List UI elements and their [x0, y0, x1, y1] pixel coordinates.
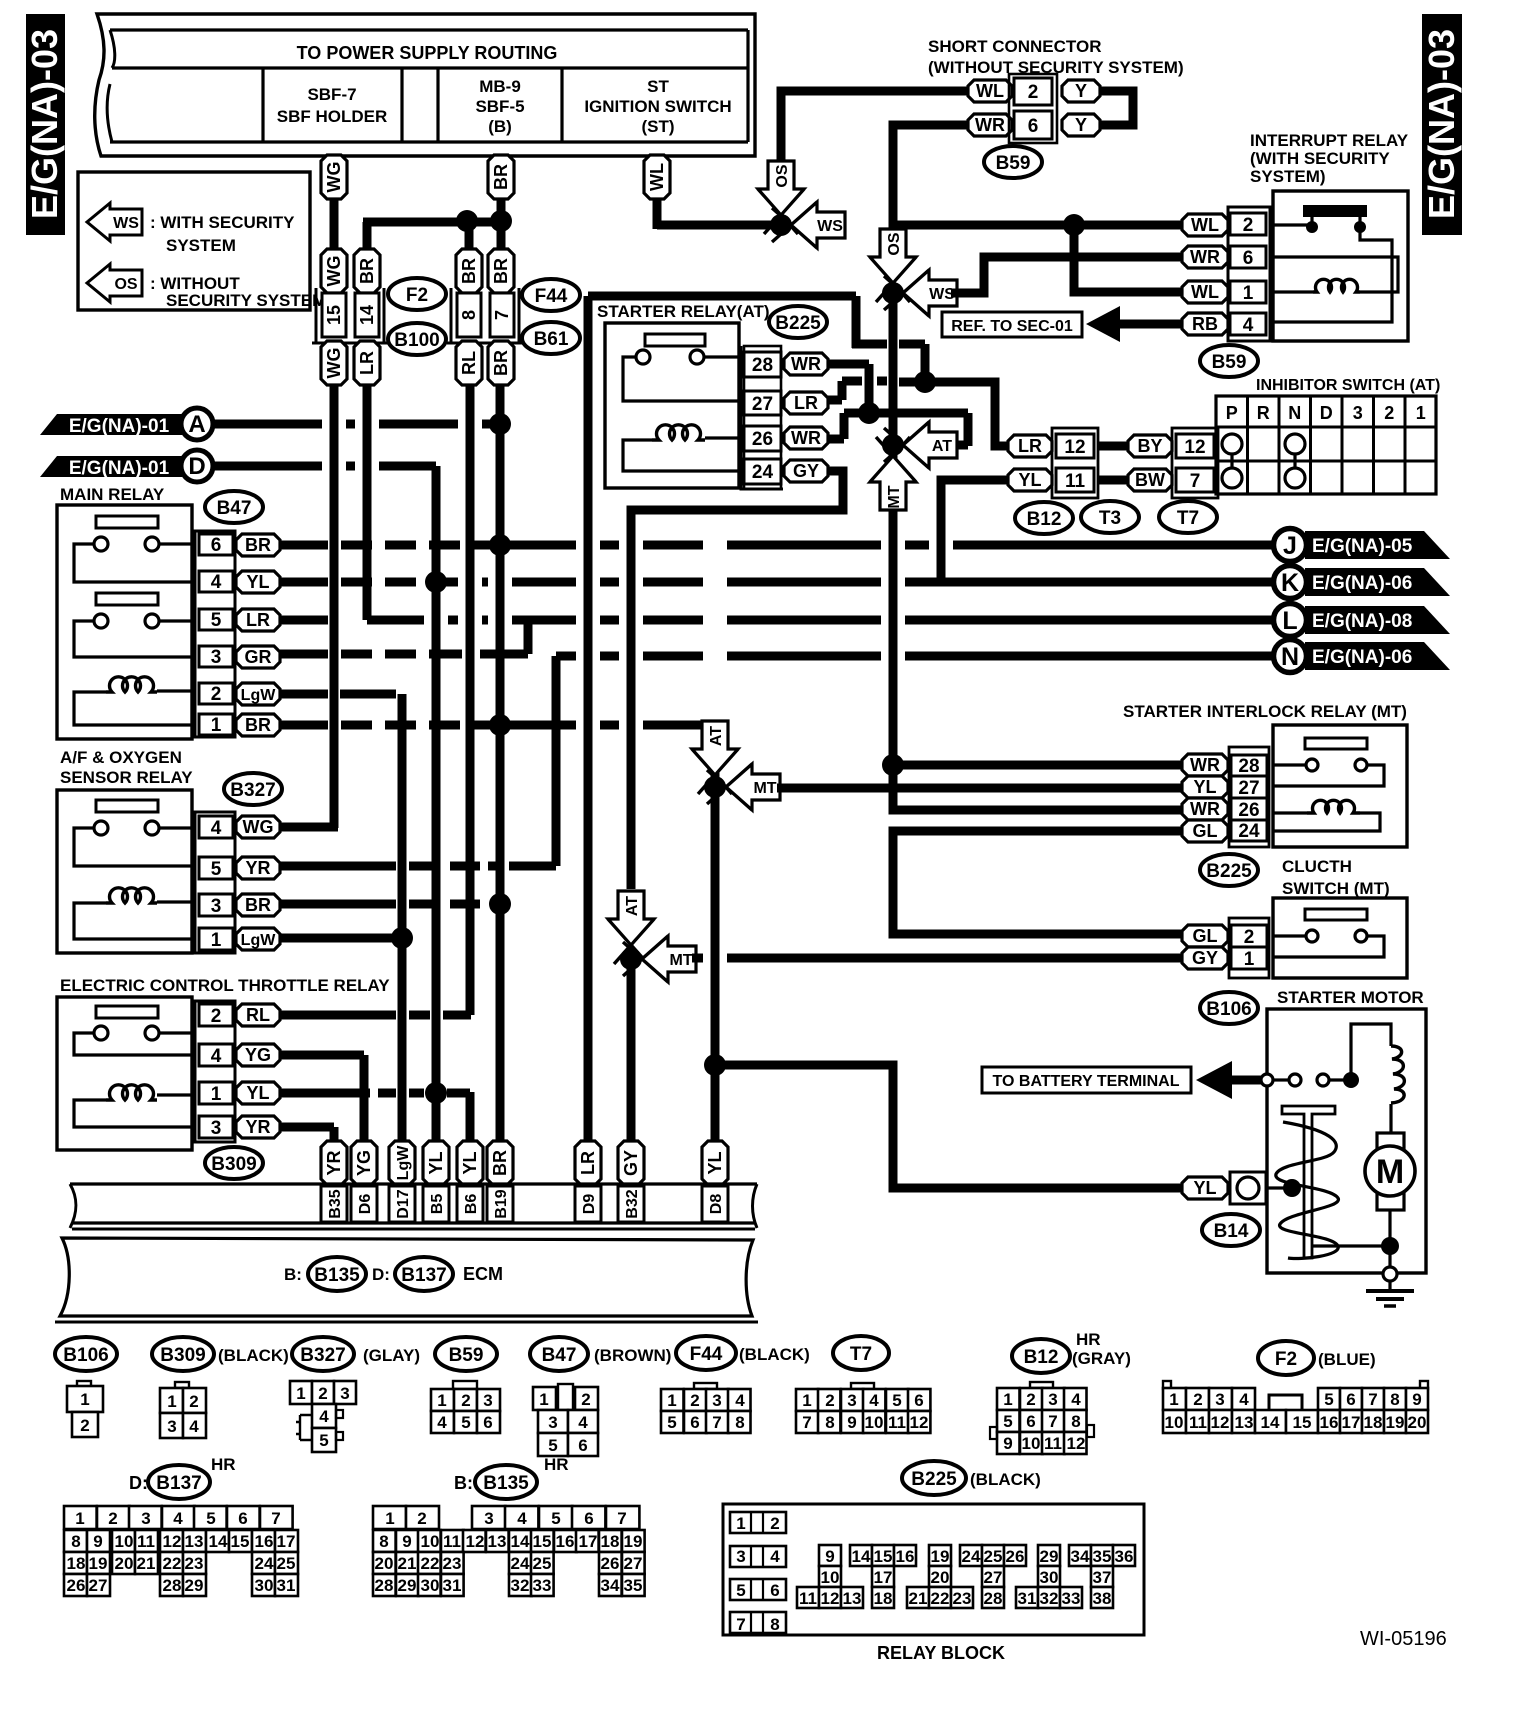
wire pin1 YL dashed	[280, 1089, 370, 1098]
ECM pin number boxes	[321, 1186, 347, 1222]
wire x893 to WR26	[893, 765, 1183, 810]
junction dot 718,1065	[704, 1054, 726, 1076]
starter relay box	[605, 323, 739, 488]
inhibitor switch table	[1216, 396, 1436, 494]
main relay contact1	[94, 537, 108, 551]
svg-text:YL: YL	[246, 572, 269, 592]
interlock relay pin pills	[1182, 754, 1228, 776]
svg-text:1: 1	[211, 930, 222, 951]
svg-text:B5: B5	[429, 1194, 446, 1215]
svg-text:20: 20	[115, 1554, 134, 1573]
svg-text:6: 6	[483, 1413, 492, 1432]
wire pin2 RL	[280, 1011, 396, 1020]
svg-text:CLUCTH: CLUCTH	[1282, 857, 1352, 876]
flag J E/G(NA)-05	[1305, 531, 1450, 559]
svg-text:WR: WR	[1190, 799, 1220, 819]
svg-text:2: 2	[417, 1509, 426, 1528]
svg-text:B225: B225	[775, 313, 821, 334]
throttle relay box	[57, 997, 192, 1150]
interlock relay pin boxes	[1231, 755, 1267, 776]
wire D9 vertical x=586	[584, 296, 593, 1142]
svg-text:1: 1	[1244, 949, 1255, 970]
svg-text:(B): (B)	[488, 117, 512, 136]
svg-text:INHIBITOR SWITCH (AT): INHIBITOR SWITCH (AT)	[1256, 377, 1440, 394]
svg-text:B:: B:	[284, 1265, 302, 1284]
connector ref B327 bottom	[292, 1337, 354, 1371]
svg-text:30: 30	[1040, 1568, 1059, 1587]
svg-text:6: 6	[238, 1509, 247, 1528]
svg-text:7: 7	[492, 310, 512, 320]
svg-text:10: 10	[1022, 1434, 1041, 1453]
svg-text:8: 8	[770, 1615, 779, 1634]
legend OS arrow	[87, 264, 142, 302]
svg-text:8: 8	[825, 1413, 834, 1432]
svg-text:YL: YL	[426, 1151, 446, 1174]
svg-text:2: 2	[211, 684, 222, 705]
svg-text:36: 36	[1115, 1547, 1134, 1566]
svg-text:24: 24	[1238, 821, 1260, 842]
svg-text:23: 23	[185, 1554, 204, 1573]
svg-text:26: 26	[601, 1554, 620, 1573]
svg-text:1: 1	[211, 715, 222, 736]
svg-text:B35: B35	[327, 1189, 344, 1218]
svg-text:2: 2	[825, 1391, 834, 1410]
svg-text:7: 7	[736, 1615, 745, 1634]
wire RL vertical x=467 upper	[466, 384, 475, 1015]
arrow AT on D8 line	[692, 749, 732, 794]
wire YL11 to K row	[941, 480, 1008, 582]
relay block cells row C	[797, 1587, 819, 1608]
wire Y loop	[1100, 91, 1133, 125]
svg-text:19: 19	[624, 1532, 643, 1551]
svg-text:4: 4	[1243, 315, 1254, 336]
svg-text:3: 3	[211, 647, 222, 668]
throttle relay pin pills	[236, 1004, 280, 1026]
svg-text:BR: BR	[245, 535, 271, 555]
connector ref F2 bottom	[1258, 1341, 1314, 1375]
wire WG vertical x=334	[330, 384, 339, 828]
svg-text:: WITH SECURITY: : WITH SECURITY	[150, 213, 295, 232]
connector B61 boxes 8 7	[457, 293, 481, 337]
svg-text:LgW: LgW	[241, 687, 277, 704]
interrupt relay contact wiring	[1273, 223, 1308, 226]
wire row D	[213, 462, 322, 471]
connector ref B12 bottom	[1012, 1339, 1070, 1373]
svg-text:4: 4	[189, 1417, 199, 1436]
svg-text:F2: F2	[406, 285, 428, 306]
svg-text:17: 17	[1342, 1413, 1361, 1432]
svg-text:15: 15	[231, 1532, 250, 1551]
svg-text:1: 1	[437, 1391, 446, 1410]
svg-text:9: 9	[93, 1532, 102, 1551]
throttle relay contact bar	[96, 1006, 158, 1018]
svg-text:AT: AT	[932, 438, 952, 455]
wire MT tail to YL27	[777, 784, 1183, 793]
svg-text:B106: B106	[1206, 999, 1251, 1020]
svg-text:6: 6	[1026, 1412, 1035, 1431]
svg-text:17: 17	[579, 1532, 598, 1551]
connector ref B225 starter relay	[769, 306, 827, 338]
svg-text:18: 18	[1364, 1413, 1383, 1432]
svg-text:B6: B6	[463, 1194, 480, 1215]
svg-text:2: 2	[211, 1006, 222, 1027]
svg-text:3: 3	[847, 1391, 856, 1410]
svg-text:YL: YL	[1193, 777, 1216, 797]
svg-text:YL: YL	[705, 1151, 725, 1174]
svg-text:26: 26	[1238, 800, 1259, 821]
solenoid spring	[1276, 1122, 1339, 1259]
connector ref T3	[1081, 501, 1139, 533]
wire 12 to BY	[1098, 442, 1128, 451]
svg-text:B135: B135	[483, 1473, 529, 1494]
starter relay pin boxes	[744, 352, 781, 377]
wire y=225 to interrupt relay WL2	[897, 221, 1183, 230]
svg-text:B327: B327	[300, 1345, 345, 1366]
svg-text:LR: LR	[246, 610, 270, 630]
svg-text:3: 3	[211, 896, 222, 917]
svg-text:(GRAY): (GRAY)	[1072, 1349, 1131, 1368]
svg-text:8: 8	[1390, 1390, 1399, 1409]
svg-text:9: 9	[1412, 1390, 1421, 1409]
svg-text:B309: B309	[160, 1345, 205, 1366]
svg-text:5: 5	[1003, 1412, 1012, 1431]
arrow WS mid	[884, 270, 929, 310]
svg-text:F44: F44	[690, 1344, 723, 1365]
svg-text:1: 1	[1003, 1390, 1012, 1409]
wire BR from MB-9	[497, 195, 506, 253]
svg-text:B47: B47	[217, 498, 252, 519]
wire B6 vertical lower x=467	[466, 1092, 475, 1142]
svg-text:LgW: LgW	[395, 1145, 412, 1181]
svg-text:WS: WS	[113, 215, 139, 232]
clutch switch box	[1273, 898, 1407, 978]
svg-text:4: 4	[517, 1509, 527, 1528]
svg-text:YL: YL	[1018, 470, 1041, 490]
svg-text:OS: OS	[774, 164, 791, 187]
svg-text:D:: D:	[372, 1265, 390, 1284]
interrupt relay contact bar	[1303, 205, 1367, 217]
pin LR B12-12	[1008, 435, 1052, 457]
junction dot 893,765	[882, 754, 904, 776]
svg-text:33: 33	[1062, 1589, 1081, 1608]
wire GL24 elbow to clutch GL2	[893, 831, 1183, 934]
svg-text:AT: AT	[624, 896, 641, 916]
svg-text:2: 2	[318, 1384, 327, 1403]
motor armature	[1389, 1104, 1392, 1133]
svg-text:B12: B12	[1027, 509, 1062, 530]
wire row J	[500, 541, 576, 550]
B59 pin diagram	[453, 1381, 477, 1389]
throttle relay contact	[94, 1026, 108, 1040]
svg-text:26: 26	[752, 429, 773, 450]
pin BR row2 right	[488, 249, 514, 293]
svg-text:18: 18	[67, 1554, 86, 1573]
wire x=925 to dot	[921, 344, 930, 382]
junction dot 869,413	[858, 402, 880, 424]
interrupt relay contact dots	[1306, 221, 1318, 233]
svg-text:13: 13	[185, 1532, 204, 1551]
svg-text:24: 24	[511, 1554, 530, 1573]
connector ref T7 bottom	[833, 1336, 889, 1370]
legend box	[78, 172, 310, 310]
svg-text:3: 3	[1215, 1390, 1224, 1409]
arrow AT starter relay	[884, 422, 929, 462]
svg-text:B32: B32	[624, 1189, 641, 1218]
svg-text:2: 2	[1243, 215, 1254, 236]
wire pin4 WG	[280, 823, 338, 832]
connector ref B100	[388, 323, 446, 355]
svg-text:6: 6	[914, 1391, 923, 1410]
A/F relay connector bracket	[195, 812, 235, 953]
svg-text:OS: OS	[886, 232, 903, 255]
svg-text:4: 4	[735, 1391, 745, 1410]
wire row L	[367, 616, 424, 625]
svg-text:4: 4	[211, 1046, 222, 1067]
svg-text:18: 18	[601, 1532, 620, 1551]
REF arrowhead	[1086, 306, 1120, 342]
throttle relay pin boxes	[199, 1004, 233, 1026]
page label E/G(NA)-03 right	[1422, 14, 1462, 235]
wire bus y=222	[363, 218, 510, 227]
svg-text:B225: B225	[911, 1469, 957, 1490]
wire pin1 BR dashed	[280, 721, 328, 730]
wire BR vertical x=502	[496, 384, 505, 1142]
pin BR row2 B100	[354, 249, 380, 293]
svg-text:6: 6	[211, 535, 222, 556]
wire WR28 down leg	[828, 360, 869, 369]
page label E/G(NA)-03 left	[26, 14, 65, 235]
pin WG row2	[321, 249, 347, 293]
interrupt relay box	[1273, 191, 1408, 341]
svg-text:1: 1	[1416, 403, 1426, 423]
svg-text:20: 20	[931, 1568, 950, 1587]
svg-text:7: 7	[802, 1413, 811, 1432]
svg-text:22: 22	[421, 1554, 440, 1573]
connector ref B309	[205, 1147, 263, 1179]
motor contact dot	[1343, 1072, 1359, 1088]
wire 11 to BW	[1098, 476, 1128, 485]
junction dot 1074,225	[1063, 214, 1085, 236]
svg-text:7: 7	[1190, 471, 1201, 492]
svg-text:WR: WR	[1190, 247, 1220, 267]
svg-text:16: 16	[556, 1532, 575, 1551]
svg-text:37: 37	[1093, 1568, 1112, 1587]
svg-text:13: 13	[843, 1589, 862, 1608]
svg-text:M: M	[1376, 1153, 1404, 1191]
svg-text:5: 5	[736, 1581, 745, 1600]
svg-text:1: 1	[167, 1392, 176, 1411]
svg-text:15: 15	[1293, 1413, 1312, 1432]
svg-text:6: 6	[690, 1413, 699, 1432]
throttle relay coil	[106, 1085, 157, 1100]
wire WR of short connector down x=893	[893, 125, 968, 238]
svg-text:7: 7	[1048, 1412, 1057, 1431]
svg-text:10: 10	[1165, 1413, 1184, 1432]
svg-text:29: 29	[1040, 1547, 1059, 1566]
junction dot K	[425, 571, 447, 593]
svg-text:LR: LR	[357, 351, 377, 375]
wire WL from ignition switch	[653, 195, 662, 229]
svg-text:SBF-5: SBF-5	[475, 97, 524, 116]
B12 pin diagram	[1030, 1382, 1053, 1388]
wire main vertical x=893 upper	[889, 300, 898, 812]
svg-text:7: 7	[1368, 1390, 1377, 1409]
B B135 pin grid	[373, 1506, 406, 1529]
pin BW T-connector	[1128, 469, 1172, 491]
svg-text:TO BATTERY TERMINAL: TO BATTERY TERMINAL	[993, 1073, 1180, 1090]
svg-text:A: A	[188, 411, 205, 438]
svg-text:3: 3	[211, 1118, 222, 1139]
svg-text:26: 26	[67, 1576, 86, 1595]
svg-text:R: R	[1257, 403, 1270, 423]
svg-text:10: 10	[421, 1532, 440, 1551]
wire y=413 row to AT tail	[844, 409, 968, 418]
svg-text:24: 24	[752, 462, 774, 483]
svg-text:1: 1	[539, 1390, 548, 1409]
wire pin1 BR solid to AT arrow	[500, 721, 576, 730]
A/F relay pin pills	[236, 816, 280, 838]
svg-text:B59: B59	[996, 153, 1031, 174]
svg-text:SENSOR RELAY: SENSOR RELAY	[60, 768, 193, 787]
starter relay pin pills	[784, 353, 828, 375]
svg-text:HR: HR	[211, 1455, 236, 1474]
svg-text:5: 5	[206, 1509, 215, 1528]
connector B100 boxes 15 14	[322, 293, 346, 337]
svg-text:BR: BR	[357, 258, 377, 284]
svg-text:4: 4	[578, 1413, 588, 1432]
svg-text:B59: B59	[1212, 352, 1247, 373]
svg-text:SHORT CONNECTOR: SHORT CONNECTOR	[928, 37, 1101, 56]
arrow OS mid	[870, 257, 910, 302]
svg-text:SECURITY SYSTEM: SECURITY SYSTEM	[166, 291, 326, 310]
svg-text:2: 2	[1028, 82, 1039, 103]
svg-text:17: 17	[874, 1568, 893, 1587]
svg-text:2: 2	[1193, 1390, 1202, 1409]
svg-text:HR: HR	[544, 1455, 569, 1474]
svg-text:GY: GY	[621, 1150, 641, 1176]
connector ref B106 bottom	[55, 1337, 117, 1371]
svg-text:29: 29	[398, 1576, 417, 1595]
svg-text:30: 30	[421, 1576, 440, 1595]
svg-text:6: 6	[1028, 116, 1039, 137]
column dividers	[261, 68, 264, 142]
svg-text:WG: WG	[243, 817, 274, 837]
wire WR26 jog	[828, 435, 844, 444]
wire pin3 YR	[280, 1123, 334, 1132]
svg-text:IGNITION SWITCH: IGNITION SWITCH	[584, 97, 731, 116]
wire row K	[436, 578, 458, 587]
inhibitor switch position circles P	[1222, 434, 1242, 454]
svg-text:(BLACK): (BLACK)	[970, 1470, 1041, 1489]
svg-text:22: 22	[163, 1554, 182, 1573]
wire to LR12 from dot 925,382	[899, 382, 1008, 446]
svg-text:12: 12	[1211, 1413, 1230, 1432]
svg-text:3: 3	[167, 1417, 176, 1436]
svg-text:MT: MT	[886, 485, 903, 508]
interlock relay connector bracket	[1229, 747, 1269, 847]
svg-text:2: 2	[461, 1391, 470, 1410]
svg-text:10: 10	[865, 1413, 884, 1432]
svg-text:RL: RL	[246, 1005, 270, 1025]
B106 pin diagram	[77, 1381, 91, 1387]
svg-text:16: 16	[1320, 1413, 1339, 1432]
solenoid plunger	[1282, 1106, 1335, 1258]
svg-text:3: 3	[712, 1391, 721, 1410]
svg-text:Y: Y	[1075, 81, 1087, 101]
clutch switch connector bracket	[1229, 918, 1269, 978]
svg-text:B:: B:	[454, 1473, 473, 1493]
pin YL B12-11	[1008, 469, 1052, 491]
junction dot 502,904	[489, 893, 511, 915]
svg-text:3: 3	[1353, 403, 1363, 423]
svg-text:5: 5	[211, 610, 222, 631]
svg-text:27: 27	[1238, 778, 1259, 799]
svg-text:D: D	[188, 453, 205, 480]
svg-text:F44: F44	[535, 286, 568, 307]
svg-text:4: 4	[869, 1391, 879, 1410]
svg-text:LR: LR	[578, 1151, 598, 1175]
B12 pin boxes 12 11	[1056, 434, 1094, 458]
connector ref B47 bottom	[530, 1337, 588, 1371]
svg-text:13: 13	[488, 1532, 507, 1551]
svg-text:2: 2	[1384, 403, 1394, 423]
junction dot 925,382	[914, 371, 936, 393]
junction dot A 502,424	[489, 413, 511, 435]
svg-text:12: 12	[1067, 1434, 1086, 1453]
pin BR below B61	[488, 341, 514, 385]
svg-text:2: 2	[770, 1514, 779, 1533]
svg-text:12: 12	[466, 1532, 485, 1551]
wire N elbow down x=556	[552, 656, 561, 866]
main relay box	[57, 505, 192, 739]
svg-text:B225: B225	[1206, 861, 1252, 882]
svg-text:RL: RL	[459, 351, 479, 375]
svg-text:28: 28	[752, 355, 773, 376]
short connector pins	[968, 80, 1012, 102]
A/F relay pin boxes	[199, 816, 233, 838]
svg-text:Y: Y	[1075, 115, 1087, 135]
svg-text:9: 9	[1003, 1434, 1012, 1453]
interlock relay coil	[1307, 800, 1360, 813]
wire fragment y=381	[877, 377, 887, 386]
junction dot WS 893,293	[882, 282, 904, 304]
svg-text:B327: B327	[230, 780, 275, 801]
svg-text:4: 4	[770, 1547, 780, 1566]
interlock relay contact	[1306, 759, 1318, 771]
A/F relay contact bar	[96, 800, 158, 812]
svg-text:P: P	[1226, 403, 1238, 423]
svg-text:13: 13	[1235, 1413, 1254, 1432]
svg-text:YG: YG	[245, 1045, 271, 1065]
svg-text:E/G(NA)-06: E/G(NA)-06	[1312, 647, 1412, 668]
wire LR27 jog to row y=381	[828, 396, 842, 405]
svg-text:YG: YG	[354, 1150, 374, 1176]
svg-text:4: 4	[1239, 1390, 1249, 1409]
flag L E/G(NA)-08	[1305, 606, 1450, 634]
svg-text:28: 28	[375, 1576, 394, 1595]
svg-text:23: 23	[953, 1589, 972, 1608]
svg-text:J: J	[1283, 532, 1297, 560]
connector ref B59 bottom	[435, 1337, 497, 1371]
svg-text:10: 10	[821, 1568, 840, 1587]
svg-text:SYSTEM: SYSTEM	[166, 236, 236, 255]
svg-text:3: 3	[340, 1384, 349, 1403]
svg-text:LR: LR	[794, 393, 818, 413]
svg-text:25: 25	[277, 1554, 296, 1573]
svg-text:STARTER MOTOR: STARTER MOTOR	[1277, 988, 1424, 1007]
main relay connector bracket	[195, 531, 235, 737]
svg-text:19: 19	[89, 1554, 108, 1573]
